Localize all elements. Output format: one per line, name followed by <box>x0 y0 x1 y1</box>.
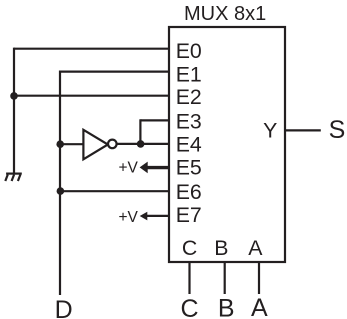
wire E4 (inverter output) <box>117 143 169 145</box>
svg-text:E5: E5 <box>176 156 202 180</box>
wire select C pin <box>188 262 190 294</box>
node junction D-E6 <box>57 187 65 195</box>
svg-text:+V: +V <box>119 159 139 176</box>
pin label E2 <box>176 85 202 109</box>
wire inverter input <box>60 143 83 145</box>
svg-text:B: B <box>214 236 228 260</box>
wire E3 <box>140 119 169 121</box>
svg-text:E3: E3 <box>176 109 202 133</box>
svg-text:E6: E6 <box>176 180 202 204</box>
label A <box>251 294 268 319</box>
label +V for E5 <box>119 159 139 176</box>
wire E6 <box>60 190 169 192</box>
ground <box>5 174 22 181</box>
label D <box>55 296 73 319</box>
pin label E5 <box>176 156 202 180</box>
node junction E2-ground <box>10 92 18 100</box>
svg-text:A: A <box>251 294 268 319</box>
svg-text:E0: E0 <box>176 39 202 63</box>
pin label Y <box>263 119 277 143</box>
pin label E0 <box>176 39 202 63</box>
svg-text:D: D <box>55 296 73 319</box>
svg-text:C: C <box>182 236 197 260</box>
pin label A <box>248 236 263 260</box>
pin label E3 <box>176 109 202 133</box>
wire select A pin <box>258 262 260 294</box>
wire E1 <box>60 70 169 72</box>
svg-text:S: S <box>329 116 346 144</box>
pin label E1 <box>176 62 202 86</box>
svg-text:C: C <box>180 295 198 319</box>
wire Y output <box>285 129 321 131</box>
wire E2 <box>14 95 169 97</box>
svg-text:E7: E7 <box>176 203 202 227</box>
wire E0 <box>14 48 169 50</box>
label B <box>218 295 235 319</box>
power +V arrow E5 <box>140 162 170 174</box>
power +V arrow E7 <box>140 212 170 221</box>
svg-text:Y: Y <box>263 119 277 143</box>
label C <box>180 295 198 319</box>
inverter U2 <box>83 130 116 160</box>
pin label E4 <box>176 132 202 156</box>
node junction D-inverter input <box>56 140 64 148</box>
pin label E7 <box>176 203 202 227</box>
mux U1 body <box>169 27 285 262</box>
svg-text:+V: +V <box>119 209 139 226</box>
node junction E3-E4 <box>137 140 145 148</box>
pin label C <box>182 236 197 260</box>
svg-text:E2: E2 <box>176 85 202 109</box>
svg-text:MUX 8x1: MUX 8x1 <box>184 3 266 25</box>
label MUX 8x1 <box>184 3 266 25</box>
wire E3 branch vertical <box>139 119 141 144</box>
label S <box>329 116 346 144</box>
svg-text:A: A <box>248 236 263 260</box>
wire ground vertical <box>13 48 15 174</box>
svg-text:B: B <box>218 295 235 319</box>
svg-text:E1: E1 <box>176 62 202 86</box>
pin label E6 <box>176 180 202 204</box>
pin label B <box>214 236 228 260</box>
svg-text:E4: E4 <box>176 132 202 156</box>
label +V for E7 <box>119 209 139 226</box>
wire select B pin <box>224 262 226 294</box>
wire D vertical <box>59 71 61 296</box>
